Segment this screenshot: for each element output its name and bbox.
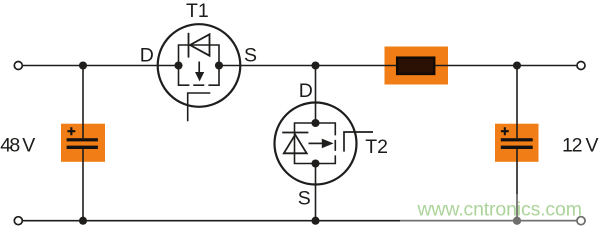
wire bottom rail (greyed under watermark) [400, 220, 577, 222]
wire top rail left (input terminal to T1 drain) [22, 65, 179, 67]
T2 bulk arrow [309, 142, 323, 144]
svg-text:T1: T1 [186, 0, 209, 22]
T2 gate electrode and lead [344, 132, 373, 152]
node: bottom rail / C1 junction [79, 217, 87, 225]
node: bottom rail / C2 junction [513, 217, 521, 225]
capacitor C2 plates [501, 138, 533, 141]
node: bottom rail / T2 source junction [311, 217, 319, 225]
wire T2 source [315, 164, 317, 221]
transistor T2 [275, 103, 374, 185]
T2 inner branches (left loop) [295, 123, 316, 164]
wire output cap branch lower (greyed under watermark) [516, 195, 518, 221]
svg-text:www.cntronics.com: www.cntronics.com [417, 198, 582, 220]
T2 drain junction dot [311, 119, 319, 127]
wire bottom rail [22, 220, 577, 222]
terminal output - (greyed) [577, 217, 585, 225]
T1 gate electrode and lead [188, 93, 211, 121]
terminal input - [14, 217, 22, 225]
node: bottom rail / C2 junction (greyed) [513, 217, 521, 225]
capacitor C1 plates [67, 138, 98, 141]
T2 source junction dot [311, 159, 319, 167]
wire T2 drain [315, 66, 317, 124]
T2 body diode triangle [284, 135, 307, 154]
T2 circle [275, 103, 357, 185]
T1 bulk arrow [198, 62, 200, 73]
node: top rail / C2 junction [513, 61, 521, 69]
terminal output + [577, 62, 585, 70]
svg-text:D: D [299, 80, 313, 102]
capacitor C2 polarity plus [501, 127, 509, 135]
svg-text:12 V: 12 V [562, 135, 599, 157]
svg-text:T2: T2 [365, 136, 388, 158]
T1 body diode triangle [190, 34, 210, 55]
T1 drain junction dot [174, 61, 182, 69]
T1 source junction dot [215, 61, 223, 69]
transistor T1 [158, 24, 241, 121]
T2 channel segments [316, 123, 336, 164]
watermark overlay [400, 195, 600, 227]
T1 channel segments [179, 66, 220, 86]
capacitor C2 highlight (orange) [495, 124, 539, 162]
svg-text:S: S [298, 188, 311, 210]
T2 body diode cathode bar [282, 132, 308, 134]
capacitor C1 highlight (orange) [61, 124, 105, 162]
node: top rail / C1 junction [79, 61, 87, 69]
svg-text:48 V: 48 V [0, 135, 35, 157]
T1 circle [158, 24, 241, 107]
inductor L1 body [397, 58, 434, 74]
svg-text:D: D [140, 44, 154, 66]
wire input cap branch lower [82, 149, 84, 221]
svg-text:S: S [244, 44, 257, 66]
terminal input + [14, 62, 22, 70]
capacitor C1 polarity plus [67, 127, 75, 135]
node: top rail / T2 drain junction [311, 61, 319, 69]
wire output cap branch upper [516, 66, 518, 139]
wire top rail right (T1 source to output terminal) [219, 65, 577, 67]
T1 body diode cathode bar [188, 33, 190, 58]
T1 inner risers and top branch [179, 45, 220, 66]
inductor L1 highlight (orange) [385, 47, 449, 85]
terminal output - [577, 217, 585, 225]
wire output cap branch lower [516, 149, 518, 221]
wire input cap branch upper [82, 66, 84, 139]
